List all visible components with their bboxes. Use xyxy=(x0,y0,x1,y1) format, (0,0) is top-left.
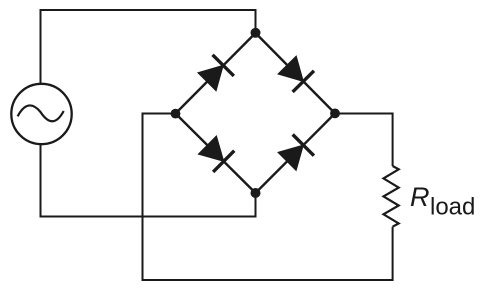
node: bridge top junction xyxy=(251,28,261,38)
wire: source top to bridge top node xyxy=(41,10,256,84)
diode D3 (left node to bottom node) xyxy=(197,134,234,171)
wire: bridge right node to load top xyxy=(335,114,393,167)
wire: source bottom to bridge bottom node xyxy=(41,144,256,217)
node: bridge right junction xyxy=(330,109,340,119)
diode D1 (left node to top node) xyxy=(196,55,233,92)
diode D4 (bottom node to right node) xyxy=(276,135,313,172)
wire: bridge arm top-right xyxy=(256,33,336,113)
wire: bridge left node to load bottom xyxy=(143,114,393,281)
svg-text:R: R xyxy=(410,182,430,212)
resistor R_load xyxy=(384,166,399,227)
diode D2 (top node to right node) xyxy=(276,55,314,92)
wire: bridge arm bottom-right xyxy=(256,113,336,193)
node: bridge bottom junction xyxy=(251,188,261,198)
node: bridge left junction xyxy=(171,109,181,119)
wire: bridge arm left-bottom xyxy=(176,114,256,194)
svg-text:load: load xyxy=(430,194,475,221)
ac source xyxy=(11,84,71,144)
wire: bridge arm left-top xyxy=(176,33,256,114)
